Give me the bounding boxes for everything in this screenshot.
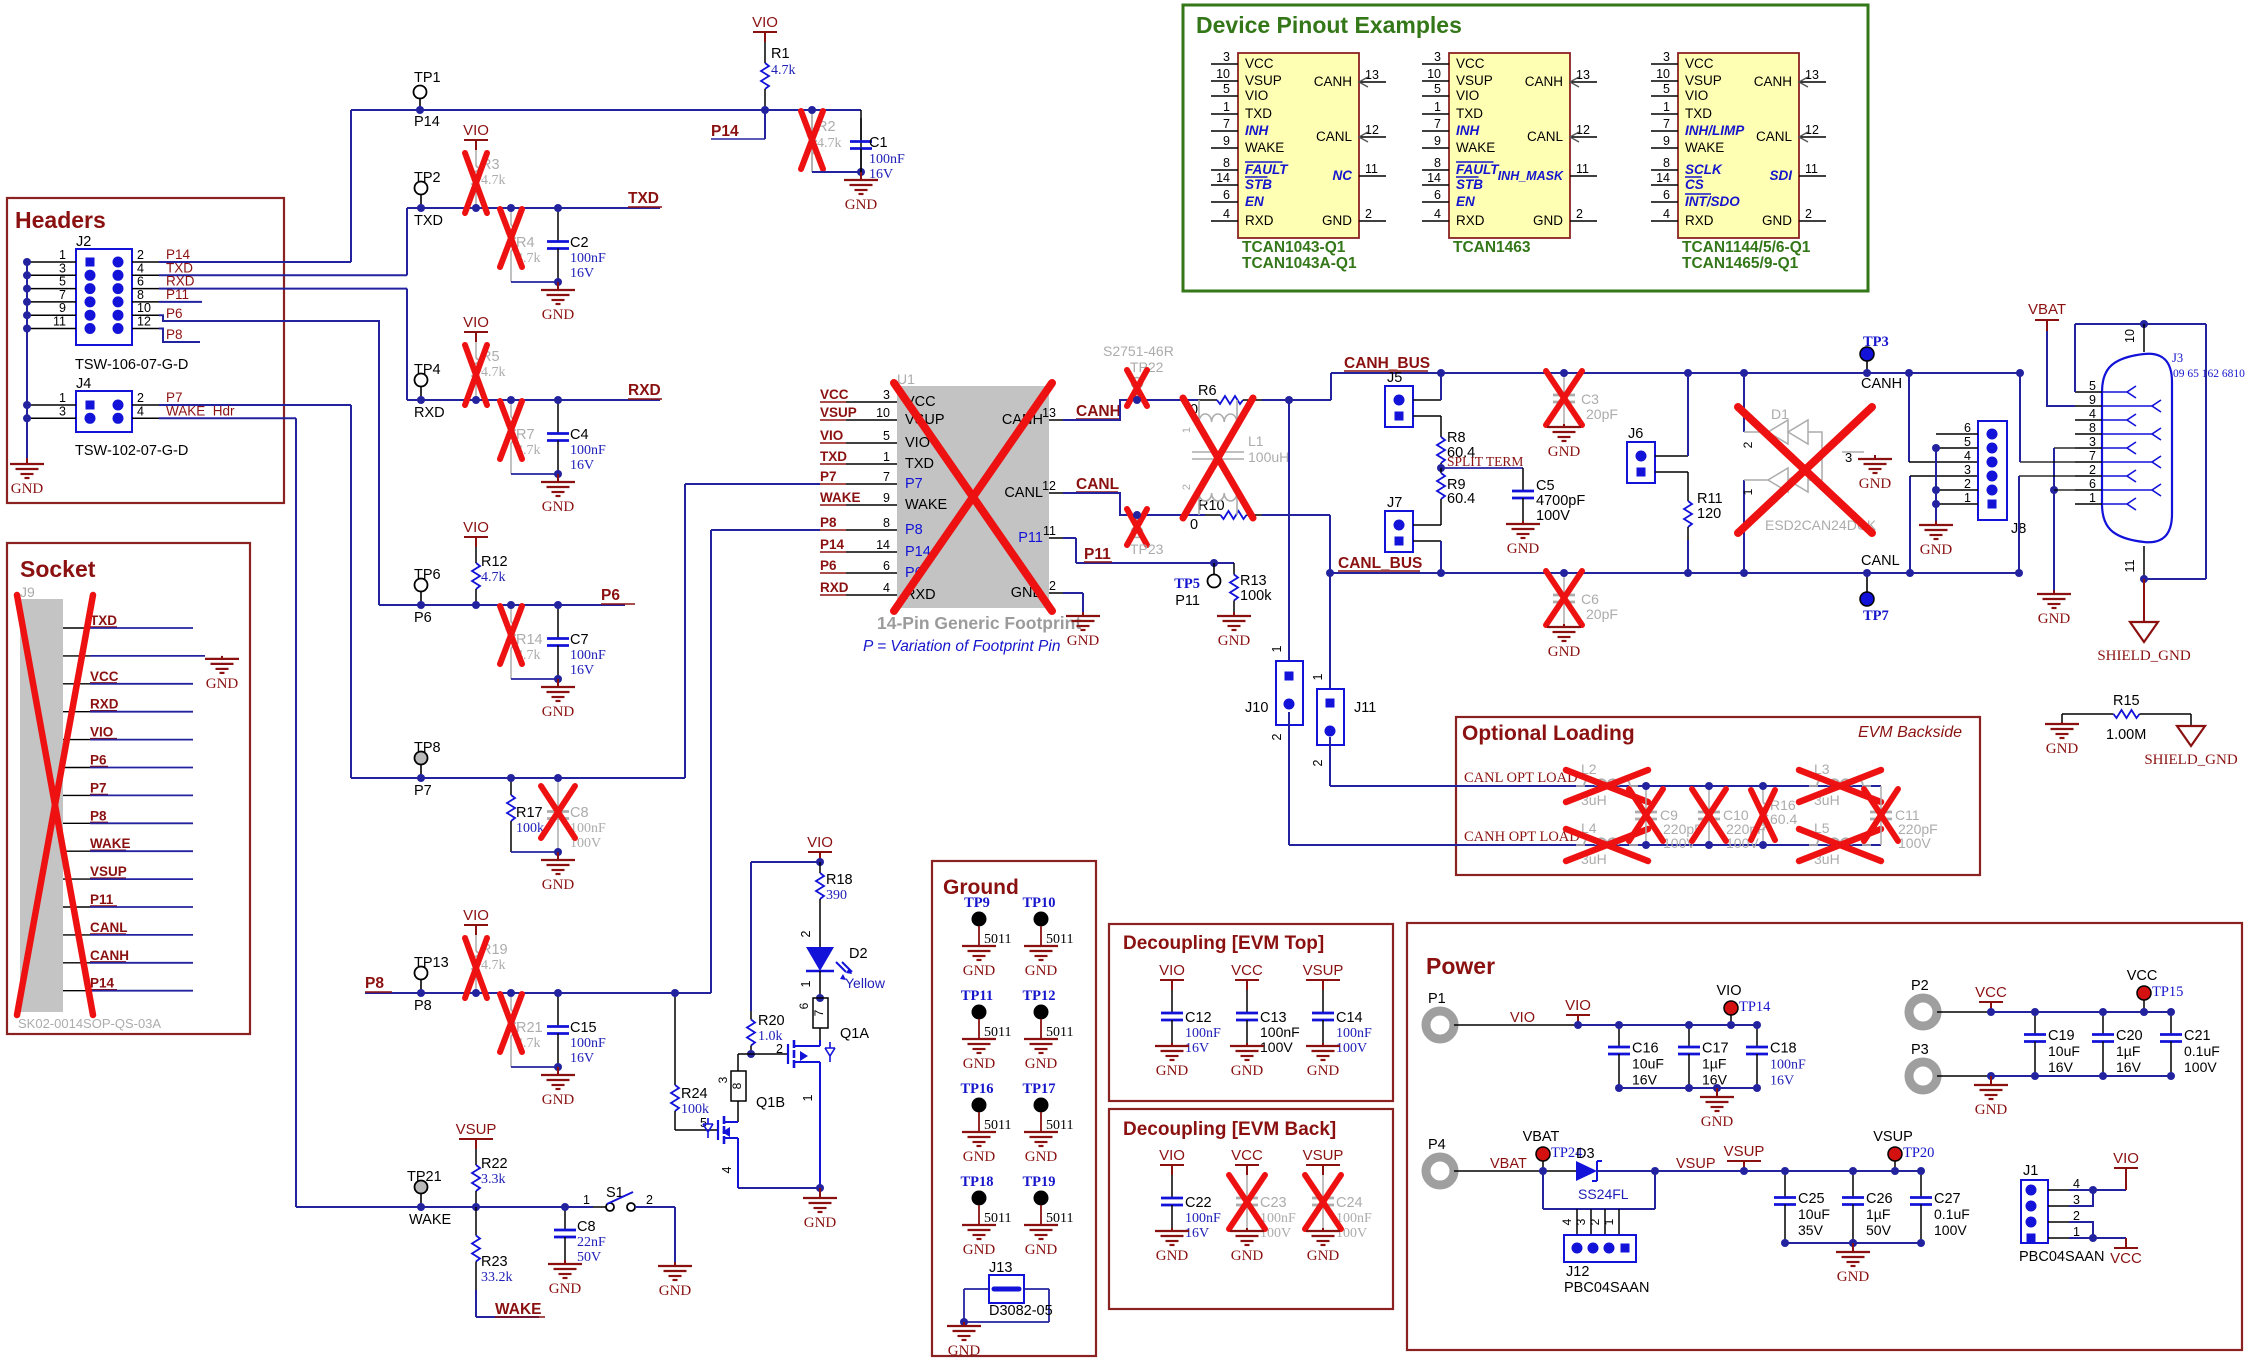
resistor R5 4.7k (DNP)	[475, 342, 477, 358]
svg-text:C2: C2	[570, 235, 589, 251]
DSUB pin 7	[2075, 461, 2102, 463]
resistor R11 120	[1687, 488, 1689, 501]
DSUB pin 4	[2075, 419, 2102, 421]
svg-text:13: 13	[1042, 406, 1056, 420]
svg-text:VIO: VIO	[1717, 983, 1742, 999]
svg-text:7: 7	[1663, 117, 1670, 131]
svg-text:1: 1	[59, 391, 66, 405]
wire P14 top rail	[351, 109, 861, 111]
svg-text:R4: R4	[516, 235, 535, 251]
svg-text:P11: P11	[1018, 530, 1043, 546]
svg-text:NC: NC	[1333, 168, 1353, 183]
svg-text:9: 9	[2089, 393, 2096, 407]
svg-text:Decoupling [EVM Back]: Decoupling [EVM Back]	[1123, 1119, 1336, 1140]
svg-text:GND: GND	[1533, 213, 1563, 228]
svg-text:VCC: VCC	[1245, 56, 1274, 71]
ground of chain TP6	[557, 679, 559, 687]
svg-text:TP17: TP17	[1022, 1081, 1055, 1097]
test point TP5	[1210, 559, 1218, 567]
capacitor C14 100nF 100V	[1322, 990, 1324, 1013]
svg-text:J4: J4	[76, 376, 91, 392]
svg-text:100k: 100k	[516, 821, 544, 836]
svg-text:CANH OPT LOAD: CANH OPT LOAD	[1464, 829, 1580, 845]
U1 pin 5 VIO	[846, 442, 897, 444]
svg-text:RXD: RXD	[414, 405, 445, 421]
svg-text:D3: D3	[1576, 1146, 1595, 1162]
svg-text:1: 1	[2073, 1225, 2080, 1239]
svg-text:VSUP: VSUP	[1685, 73, 1722, 88]
svg-text:STB: STB	[1245, 177, 1272, 192]
svg-text:P11: P11	[90, 892, 114, 907]
svg-text:TP19: TP19	[1022, 1174, 1055, 1190]
wire CANL to J8 pin3	[1909, 476, 1911, 573]
svg-text:GND: GND	[1837, 1269, 1870, 1285]
svg-text:VIO: VIO	[1510, 1010, 1535, 1026]
svg-text:5: 5	[59, 275, 66, 289]
svg-text:C27: C27	[1934, 1191, 1961, 1207]
svg-text:100nF: 100nF	[1336, 1026, 1372, 1041]
svg-text:100nF: 100nF	[1260, 1211, 1296, 1226]
svg-text:100V: 100V	[1536, 508, 1570, 524]
svg-text:CANL: CANL	[1004, 485, 1043, 501]
svg-text:TP7: TP7	[1863, 608, 1889, 624]
svg-text:4: 4	[137, 404, 144, 418]
svg-text:4: 4	[1560, 1218, 1574, 1225]
svg-text:8: 8	[137, 288, 144, 302]
svg-text:PBC04SAAN: PBC04SAAN	[1564, 1280, 1649, 1296]
ground for D1 pin 3	[1874, 455, 1876, 459]
svg-text:100nF: 100nF	[570, 648, 606, 663]
resistor R4 4.7k (DNP)	[510, 212, 512, 225]
resistor R8 60.4	[1440, 432, 1442, 437]
svg-text:1: 1	[801, 1094, 815, 1101]
svg-text:GND: GND	[1231, 1063, 1264, 1079]
ground for S1	[674, 1262, 676, 1266]
U1 pin 8 P8	[846, 529, 897, 531]
svg-text:1: 1	[1964, 491, 1971, 505]
svg-text:3: 3	[2073, 1193, 2080, 1207]
svg-text:S1: S1	[606, 1185, 624, 1201]
svg-text:6: 6	[797, 1002, 811, 1009]
svg-text:CANL_BUS: CANL_BUS	[1338, 555, 1422, 572]
svg-text:RXD: RXD	[1685, 213, 1714, 228]
svg-text:C14: C14	[1336, 1010, 1363, 1026]
svg-text:TXD: TXD	[1245, 106, 1272, 121]
svg-text:VCC: VCC	[1456, 56, 1485, 71]
svg-text:1: 1	[1270, 645, 1284, 652]
capacitor C26 1µF 50V	[1852, 1171, 1854, 1198]
svg-text:120: 120	[1697, 506, 1721, 522]
svg-text:TCAN1043-Q1: TCAN1043-Q1	[1242, 239, 1346, 256]
svg-text:CANL: CANL	[1756, 129, 1793, 144]
svg-text:2: 2	[1805, 207, 1812, 221]
svg-text:Socket: Socket	[20, 556, 96, 582]
svg-text:1: 1	[1311, 673, 1325, 680]
capacitor C2 100nF 16V	[557, 208, 559, 242]
svg-text:VIO: VIO	[1565, 997, 1591, 1014]
svg-text:C6: C6	[1581, 591, 1599, 607]
svg-text:10: 10	[137, 301, 151, 315]
svg-text:D3082-05: D3082-05	[989, 1303, 1053, 1319]
resistor R10 0	[1205, 514, 1221, 516]
svg-text:P7: P7	[820, 469, 837, 484]
wire CANL OPT LOAD rail	[1330, 785, 1881, 787]
wire split term to C5	[1441, 467, 1523, 469]
svg-text:C15: C15	[570, 1020, 597, 1036]
U1 P11 pin wire	[1063, 537, 1076, 539]
svg-text:GND: GND	[549, 1281, 582, 1297]
svg-text:3: 3	[2089, 435, 2096, 449]
wire CANH OPT LOAD rail	[1289, 844, 1881, 846]
svg-text:GND: GND	[542, 307, 575, 323]
svg-text:4.7k: 4.7k	[481, 173, 506, 188]
svg-text:J6: J6	[1628, 426, 1643, 442]
ground U1	[1082, 612, 1084, 616]
svg-text:J12: J12	[1566, 1264, 1589, 1280]
svg-text:Power: Power	[1426, 953, 1495, 979]
svg-text:16V: 16V	[2116, 1059, 2142, 1075]
svg-text:VIO: VIO	[463, 122, 489, 139]
svg-text:EVM Backside: EVM Backside	[1858, 724, 1962, 741]
pad P4	[1426, 1157, 1454, 1185]
svg-text:GND: GND	[542, 877, 575, 893]
svg-text:2: 2	[1311, 759, 1325, 766]
inductor L1 100uH common mode choke (DNP)	[1199, 400, 1237, 422]
svg-text:CANH: CANH	[1754, 74, 1792, 89]
svg-text:4.7k: 4.7k	[481, 958, 506, 973]
svg-text:10: 10	[1656, 67, 1670, 81]
svg-text:VIO: VIO	[1159, 962, 1185, 979]
resistor R6 0	[1198, 399, 1217, 401]
resistor R20 1.0k	[750, 1011, 752, 1020]
capacitor C20 1µF 16V	[2102, 1012, 2104, 1035]
svg-text:VSUP: VSUP	[1303, 962, 1344, 979]
svg-text:VIO: VIO	[820, 428, 843, 443]
svg-text:1µF: 1µF	[2116, 1043, 2140, 1059]
svg-text:14: 14	[1216, 171, 1230, 185]
red X over U1	[894, 383, 1052, 611]
svg-text:60.4: 60.4	[1770, 811, 1797, 827]
svg-text:11: 11	[53, 315, 66, 329]
svg-text:CANH: CANH	[1525, 74, 1563, 89]
svg-text:3.3k: 3.3k	[481, 1172, 506, 1187]
example IC TCAN1144/5/6-Q1	[1678, 53, 1799, 238]
U1 pin 11 P11	[1049, 537, 1063, 539]
svg-text:R20: R20	[758, 1013, 785, 1029]
svg-text:P7: P7	[414, 783, 432, 799]
pad P3	[1909, 1062, 1937, 1090]
svg-text:4.7k: 4.7k	[481, 365, 506, 380]
svg-text:VCC: VCC	[2127, 968, 2158, 984]
resistor R24 100k	[674, 993, 676, 1080]
svg-text:2: 2	[1181, 484, 1193, 490]
inductor L3 3uH (DNP)	[1809, 779, 1871, 786]
svg-text:CANH: CANH	[1314, 74, 1352, 89]
svg-text:2: 2	[1588, 1218, 1602, 1225]
svg-text:TXD: TXD	[1685, 106, 1712, 121]
svg-text:7: 7	[2089, 449, 2096, 463]
wire CANL_BUS rail	[1330, 572, 2019, 574]
svg-text:5011: 5011	[984, 1211, 1011, 1226]
svg-text:6: 6	[1223, 188, 1230, 202]
Device Pinout Examples group box	[1183, 5, 1868, 291]
svg-text:P6: P6	[601, 587, 620, 604]
ground below C3	[1563, 424, 1565, 427]
svg-text:5011: 5011	[1046, 1025, 1073, 1040]
svg-text:100nF: 100nF	[869, 152, 905, 167]
svg-text:GND: GND	[542, 499, 575, 515]
svg-text:8: 8	[1434, 156, 1441, 170]
svg-text:6: 6	[883, 559, 890, 573]
svg-text:2: 2	[1576, 207, 1583, 221]
svg-text:TCAN1043A-Q1: TCAN1043A-Q1	[1242, 255, 1357, 272]
capacitor C7 100nF 16V	[557, 605, 559, 639]
wire gate bus to Q1B	[738, 1053, 751, 1055]
U1 pin 12 CANL	[1049, 492, 1063, 494]
svg-text:09 65 162 6810: 09 65 162 6810	[2173, 368, 2245, 380]
svg-text:D1: D1	[1771, 406, 1789, 422]
svg-text:GND: GND	[2038, 611, 2071, 627]
svg-text:9: 9	[1434, 134, 1441, 148]
svg-text:100k: 100k	[1240, 588, 1272, 604]
svg-text:J13: J13	[989, 1260, 1012, 1276]
svg-text:VIO: VIO	[463, 907, 489, 924]
svg-text:4.7k: 4.7k	[817, 136, 842, 151]
capacitor C24 100nF 100V (DNP)	[1322, 1175, 1324, 1198]
svg-text:4: 4	[720, 1166, 734, 1173]
svg-text:3: 3	[1845, 450, 1852, 465]
svg-text:VSUP: VSUP	[1873, 1129, 1913, 1145]
svg-text:SK02-0014SOP-QS-03A: SK02-0014SOP-QS-03A	[18, 1016, 161, 1031]
svg-text:VCC: VCC	[1231, 1147, 1263, 1164]
svg-text:2: 2	[1049, 579, 1056, 593]
svg-text:12: 12	[137, 315, 151, 329]
inductor L5 3uH (DNP)	[1809, 838, 1871, 845]
svg-text:SDI: SDI	[1769, 168, 1792, 183]
svg-text:GND: GND	[1231, 1248, 1264, 1264]
DSUB pin 2	[2075, 475, 2102, 477]
resistor R18 390	[819, 862, 821, 873]
svg-text:10: 10	[2123, 329, 2137, 343]
svg-text:5: 5	[1663, 82, 1670, 96]
example IC TCAN1043-Q1	[1238, 53, 1359, 238]
svg-text:L1: L1	[1248, 433, 1264, 449]
svg-text:2: 2	[646, 1193, 653, 1207]
svg-text:3: 3	[1434, 50, 1441, 64]
svg-text:PBC04SAAN: PBC04SAAN	[2019, 1249, 2104, 1265]
shield ground symbol	[2130, 622, 2158, 642]
svg-text:12: 12	[1805, 123, 1819, 137]
svg-text:S2751-46R: S2751-46R	[1103, 343, 1174, 359]
svg-text:VSUP: VSUP	[90, 864, 127, 879]
svg-text:Yellow: Yellow	[845, 975, 886, 991]
svg-text:P8: P8	[905, 522, 923, 538]
svg-text:7: 7	[883, 470, 890, 484]
svg-text:VSUP: VSUP	[1303, 1147, 1344, 1164]
svg-text:3: 3	[1223, 50, 1230, 64]
svg-text:Decoupling [EVM Top]: Decoupling [EVM Top]	[1123, 933, 1324, 954]
svg-text:C18: C18	[1770, 1041, 1797, 1057]
svg-text:22nF: 22nF	[577, 1235, 606, 1250]
svg-text:TP12: TP12	[1022, 988, 1055, 1004]
svg-text:4: 4	[1434, 207, 1441, 221]
svg-text:VSUP: VSUP	[820, 405, 857, 420]
U1 pin 9 WAKE	[846, 504, 897, 506]
svg-text:EN: EN	[1456, 194, 1475, 209]
svg-text:P8: P8	[820, 515, 837, 530]
svg-text:2: 2	[1365, 207, 1372, 221]
svg-text:1: 1	[799, 980, 813, 987]
ground below C12	[1171, 1043, 1173, 1046]
header J12 PBC04SAAN	[1542, 1171, 1544, 1209]
resistor R9 60.4	[1440, 468, 1442, 473]
svg-text:16V: 16V	[2048, 1059, 2074, 1075]
capacitor C19 10uF 16V	[2034, 1012, 2036, 1035]
U1 GND pin wire	[1063, 592, 1083, 594]
svg-text:TP20: TP20	[1903, 1145, 1934, 1161]
Decoupling EVM Back group box	[1109, 1109, 1393, 1309]
svg-text:35V: 35V	[1798, 1222, 1824, 1238]
svg-text:100nF: 100nF	[570, 1036, 606, 1051]
svg-text:1: 1	[1602, 1218, 1616, 1225]
svg-text:4: 4	[2089, 407, 2096, 421]
svg-text:VIO: VIO	[2113, 1150, 2139, 1167]
Decoupling EVM Top group box	[1109, 924, 1393, 1101]
svg-text:CANL: CANL	[90, 920, 128, 935]
svg-text:16V: 16V	[570, 1051, 594, 1066]
svg-text:J2: J2	[76, 234, 91, 250]
svg-text:TP5: TP5	[1174, 576, 1200, 592]
svg-text:VIO: VIO	[807, 834, 833, 851]
svg-text:C12: C12	[1185, 1010, 1212, 1026]
svg-text:R13: R13	[1240, 573, 1267, 589]
resistor R22 3.3k	[475, 1149, 477, 1165]
svg-text:C25: C25	[1798, 1191, 1825, 1207]
svg-text:1: 1	[1741, 488, 1755, 495]
svg-text:7: 7	[1223, 117, 1230, 131]
wire TXD chain	[407, 207, 660, 209]
U1 pin 2 GND	[1049, 592, 1063, 594]
svg-text:33.2k: 33.2k	[481, 1270, 513, 1285]
svg-text:WAKE: WAKE	[90, 836, 131, 851]
capacitor C17 1µF 16V	[1688, 1025, 1690, 1047]
svg-text:TP9: TP9	[964, 895, 990, 911]
svg-text:WAKE: WAKE	[820, 490, 861, 505]
ground below C22	[1171, 1228, 1173, 1231]
wire VBAT to DSUB pin9	[2047, 331, 2075, 406]
svg-text:CANL: CANL	[1861, 553, 1900, 569]
inductor L4 3uH (DNP)	[1576, 838, 1638, 845]
svg-text:3: 3	[1574, 1218, 1588, 1225]
ground of chain TP2	[557, 282, 559, 290]
ground VSUP rail	[1849, 1239, 1857, 1247]
capacitor C18 100nF 16V	[1756, 1025, 1758, 1047]
svg-text:4: 4	[1964, 449, 1971, 463]
svg-text:J3: J3	[2172, 351, 2183, 365]
svg-text:TXD: TXD	[628, 190, 659, 207]
svg-text:10uF: 10uF	[1798, 1206, 1830, 1222]
capacitor C4 100nF 16V	[557, 400, 559, 434]
capacitor C8 22nF 50V	[564, 1207, 566, 1230]
svg-text:Q1B: Q1B	[756, 1095, 785, 1111]
resistor R7 4.7k (DNP)	[510, 404, 512, 417]
svg-text:R18: R18	[826, 872, 853, 888]
capacitor C25 10uF 35V	[1784, 1171, 1786, 1198]
ground below R13	[1233, 612, 1235, 616]
Q1A body diode	[825, 1042, 835, 1062]
svg-text:GND: GND	[1507, 541, 1540, 557]
ground of chain TP13	[557, 1067, 559, 1075]
svg-text:4: 4	[1223, 207, 1230, 221]
svg-text:5011: 5011	[1046, 1211, 1073, 1226]
svg-text:GND: GND	[1025, 963, 1058, 979]
svg-text:VBAT: VBAT	[1523, 1129, 1560, 1145]
svg-text:GND: GND	[1975, 1102, 2008, 1118]
svg-text:100nF: 100nF	[1185, 1026, 1221, 1041]
svg-text:TP11: TP11	[961, 988, 993, 1004]
svg-text:RXD: RXD	[90, 697, 119, 712]
svg-text:5: 5	[1434, 82, 1441, 96]
svg-text:100nF: 100nF	[570, 251, 606, 266]
svg-text:9: 9	[1223, 134, 1230, 148]
DSUB pin 8	[2075, 433, 2102, 435]
svg-text:12: 12	[1365, 123, 1379, 137]
svg-text:J9: J9	[20, 584, 35, 600]
svg-text:GND: GND	[542, 704, 575, 720]
svg-text:WAKE_Hdr: WAKE_Hdr	[166, 403, 235, 418]
DSUB top rail pin10	[2074, 324, 2076, 392]
Headers group box	[7, 198, 284, 503]
svg-text:GND: GND	[542, 1092, 575, 1108]
ground below C23	[1246, 1228, 1248, 1231]
svg-text:TP1: TP1	[414, 70, 441, 86]
svg-text:R21: R21	[516, 1020, 543, 1036]
svg-text:R12: R12	[481, 554, 508, 570]
svg-text:CANH: CANH	[1076, 403, 1121, 420]
svg-text:R14: R14	[516, 632, 543, 648]
ground on socket pin 2	[221, 656, 223, 659]
svg-text:INT/SDO: INT/SDO	[1685, 194, 1740, 209]
svg-text:P8: P8	[166, 327, 183, 342]
svg-text:0.1uF: 0.1uF	[1934, 1206, 1970, 1222]
wire VIO to R20 branch	[751, 861, 820, 863]
svg-text:GND: GND	[963, 963, 996, 979]
ground below J13	[963, 1322, 965, 1326]
svg-text:VSUP: VSUP	[456, 1121, 497, 1138]
svg-text:3: 3	[883, 388, 890, 402]
svg-text:8: 8	[2089, 421, 2096, 435]
wire CANH_BUS rail	[1331, 372, 2020, 374]
svg-text:Optional Loading: Optional Loading	[1462, 722, 1635, 745]
resistor R1 4.7k	[764, 42, 766, 63]
svg-text:C22: C22	[1185, 1195, 1212, 1211]
svg-text:VIO: VIO	[752, 14, 778, 31]
svg-text:R11: R11	[1697, 491, 1723, 507]
svg-text:INH: INH	[1456, 123, 1480, 138]
svg-text:VIO: VIO	[1685, 88, 1708, 103]
svg-text:P1: P1	[1428, 991, 1446, 1007]
svg-text:9: 9	[883, 491, 890, 505]
Socket group box	[7, 543, 250, 1034]
wire WAKE row	[296, 1206, 593, 1208]
svg-text:13: 13	[1576, 68, 1590, 82]
svg-text:P6: P6	[820, 558, 837, 573]
svg-text:16V: 16V	[1185, 1041, 1209, 1056]
svg-text:C23: C23	[1260, 1195, 1287, 1211]
svg-text:11: 11	[2123, 559, 2137, 572]
svg-text:50V: 50V	[1866, 1222, 1892, 1238]
J2 left pins common wire to GND	[26, 262, 28, 458]
